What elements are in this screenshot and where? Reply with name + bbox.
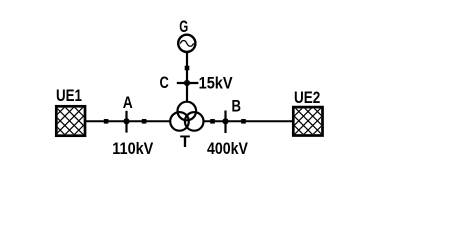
junction dot left of A: [104, 119, 109, 124]
label G: [179, 18, 188, 36]
svg-text:T: T: [180, 133, 190, 151]
svg-text:15kV: 15kV: [199, 75, 233, 93]
wire transformer to node B: [204, 120, 225, 122]
label 15kV: [199, 75, 233, 93]
junction dot right of A: [142, 119, 147, 124]
label A: [123, 94, 133, 112]
label T: [180, 133, 190, 151]
wire generator to transformer: [186, 52, 188, 102]
svg-text:C: C: [160, 74, 169, 92]
wire node A to transformer: [128, 120, 171, 122]
svg-text:G: G: [179, 18, 188, 36]
transformer T (three windings): [170, 102, 203, 131]
svg-text:UE2: UE2: [294, 89, 320, 107]
label 400kV: [207, 140, 248, 158]
junction dot left of B: [210, 119, 215, 124]
wire node B to UE2: [227, 120, 294, 122]
junction dot on vertical wire: [185, 66, 190, 71]
svg-text:A: A: [123, 94, 133, 112]
svg-text:B: B: [232, 98, 242, 116]
wire UE1 to node A: [86, 120, 126, 122]
label UE2: [294, 89, 320, 107]
junction dot right of B: [241, 119, 246, 124]
node B bus tick: [222, 111, 228, 134]
svg-text:UE1: UE1: [56, 87, 82, 105]
load UE2: [287, 72, 329, 170]
label UE1: [56, 87, 82, 105]
svg-text:400kV: 400kV: [207, 140, 248, 158]
node C bus tick: [177, 80, 199, 86]
label 110kV: [112, 140, 153, 158]
svg-text:110kV: 110kV: [112, 140, 153, 158]
load UE1: [50, 70, 92, 168]
generator G circle: [178, 35, 195, 52]
label B: [232, 98, 242, 116]
node A bus tick: [123, 111, 129, 133]
label C: [160, 74, 169, 92]
